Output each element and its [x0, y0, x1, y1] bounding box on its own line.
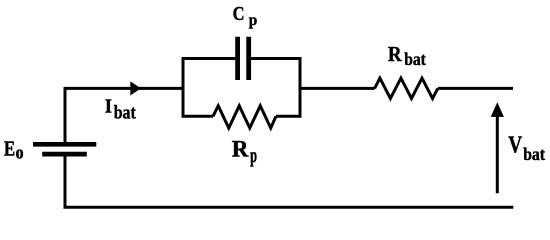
battery E0 bottom plate [42, 152, 87, 157]
resistor Rbat zigzag [375, 78, 438, 98]
label Rbat [388, 42, 426, 69]
svg-text:bat: bat [114, 103, 137, 124]
wire: top horizontal from left corner to RC block [64, 87, 184, 90]
svg-text:0: 0 [16, 146, 24, 161]
label Rp [232, 137, 257, 167]
svg-text:V: V [508, 133, 522, 159]
label Vbat [508, 133, 545, 164]
resistor Rp zigzag [213, 106, 276, 128]
current arrow Ibat head [130, 81, 141, 95]
svg-text:R: R [232, 137, 250, 163]
svg-text:bat: bat [523, 144, 545, 164]
svg-text:bat: bat [404, 49, 426, 69]
svg-text:E: E [4, 138, 15, 161]
capacitor Cp left plate [235, 37, 240, 80]
wire: from RC block to Rbat [300, 87, 375, 90]
wire: bottom horizontal return [64, 206, 514, 209]
label Cp [233, 3, 258, 29]
voltage arrow Vbat head [491, 102, 504, 117]
voltage arrow Vbat shaft [496, 114, 499, 193]
wire: RC block left side (top-left and bottom-left corners) [183, 59, 235, 117]
wire: left vertical from battery negative plate down to bottom wire [64, 157, 67, 208]
wire: RC block right side (top-right and bottom-right corners) [251, 59, 300, 117]
battery E0 top plate [33, 142, 96, 147]
capacitor Cp right plate [246, 37, 251, 80]
svg-text:p: p [249, 12, 258, 29]
svg-text:I: I [105, 96, 113, 118]
label E0 [4, 138, 24, 162]
wire: left vertical from top wire down to battery positive plate [64, 88, 67, 142]
svg-text:p: p [250, 145, 257, 167]
label Ibat [105, 96, 136, 124]
svg-text:R: R [388, 42, 402, 66]
wire: from Rbat to right end [438, 87, 513, 90]
svg-text:C: C [233, 3, 245, 25]
